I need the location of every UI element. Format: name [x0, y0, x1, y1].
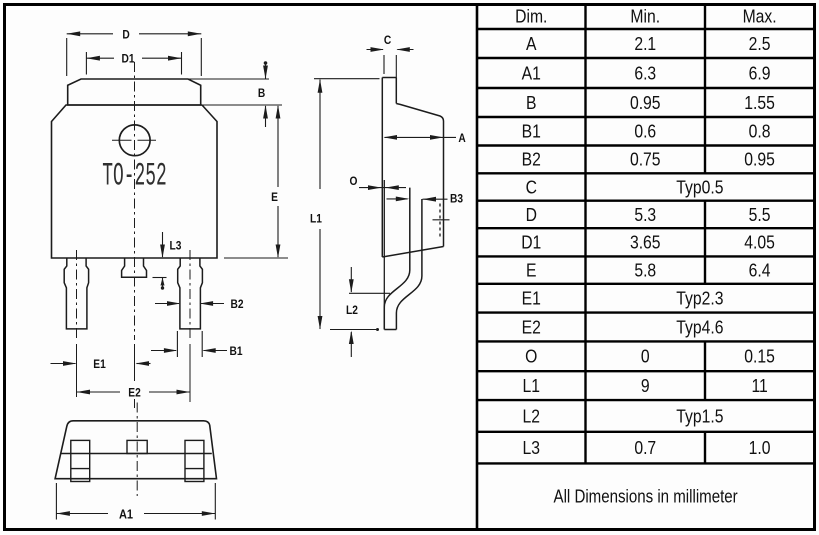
svg-text:Typ0.5: Typ0.5	[676, 176, 723, 198]
svg-text:Typ2.3: Typ2.3	[676, 287, 723, 309]
extension line: stub bottom	[153, 277, 167, 279]
dimension L3 lower arrow	[162, 278, 164, 287]
svg-text:O: O	[525, 345, 537, 367]
svg-text:5.5: 5.5	[749, 204, 771, 226]
svg-text:L3: L3	[523, 437, 540, 459]
bottom view: right pad	[185, 440, 204, 481]
side view: lead back line	[396, 199, 422, 330]
svg-text:2.1: 2.1	[634, 33, 656, 55]
svg-text:0: 0	[641, 345, 650, 367]
table: row dividers	[477, 28, 814, 30]
dimension D1 arrows	[86, 56, 100, 61]
svg-text:E2: E2	[522, 316, 541, 338]
svg-text:1.55: 1.55	[744, 92, 775, 114]
svg-text:B2: B2	[230, 298, 243, 311]
dimension B1 extension lines	[176, 331, 178, 357]
svg-text:Dim.: Dim.	[515, 5, 547, 27]
dimension O arrows	[368, 185, 382, 190]
dimension L1 top extension	[314, 78, 380, 80]
svg-text:A1: A1	[522, 62, 541, 84]
svg-text:All Dimensions in millimeter: All Dimensions in millimeter	[554, 486, 738, 507]
svg-text:0.75: 0.75	[630, 148, 661, 170]
side view: body right side	[443, 121, 445, 247]
svg-text:O: O	[350, 175, 358, 188]
dimension D extension lines	[66, 38, 68, 76]
svg-text:A: A	[458, 132, 465, 145]
side view: lead foot bottom	[384, 329, 396, 331]
svg-text:L1: L1	[523, 375, 540, 397]
svg-text:L3: L3	[170, 240, 182, 253]
svg-text:6.4: 6.4	[749, 259, 771, 281]
svg-text:B: B	[526, 92, 536, 114]
svg-text:A1: A1	[119, 507, 133, 522]
dimension L1 bottom extension	[330, 329, 376, 331]
dimension L3 upper arrow	[162, 232, 164, 257]
svg-text:B3: B3	[450, 193, 463, 206]
svg-text:E1: E1	[522, 287, 541, 309]
svg-text:Typ4.6: Typ4.6	[676, 316, 723, 338]
side view: seating plane line	[383, 180, 385, 330]
side view: tab back line	[381, 78, 383, 258]
side view: body top slant	[396, 104, 443, 122]
svg-text:L2: L2	[523, 405, 540, 427]
bottom view: body outline	[55, 421, 216, 479]
svg-text:3.65: 3.65	[630, 231, 661, 253]
svg-text:9: 9	[641, 375, 650, 397]
svg-text:0.6: 0.6	[634, 120, 656, 142]
dimension B3 hidden edge dashed	[439, 204, 441, 238]
svg-text:Min.: Min.	[630, 5, 660, 27]
svg-text:0.15: 0.15	[744, 345, 775, 367]
dimension B1 right arrow	[204, 350, 228, 352]
dimension A1 arrows	[56, 511, 70, 516]
front view: center pin stub outline	[122, 258, 147, 278]
dimension E2 arrows	[77, 390, 91, 395]
dimension D1 line	[86, 57, 114, 59]
side view: lead front line	[384, 188, 410, 330]
svg-text:1.0: 1.0	[749, 437, 771, 459]
svg-text:B: B	[258, 87, 265, 100]
table: col divider 2	[704, 3, 706, 173]
svg-text:E: E	[271, 191, 278, 204]
svg-text:6.9: 6.9	[749, 62, 771, 84]
svg-text:C: C	[384, 34, 391, 47]
dimension D arrows	[67, 31, 81, 36]
dimension A arrows	[384, 135, 398, 140]
front view: hole horizontal centerline	[112, 139, 132, 141]
dimension B3 right line	[423, 198, 448, 200]
dimension E line	[277, 106, 279, 187]
front view: mounting hole circle	[119, 125, 150, 156]
svg-text:E2: E2	[128, 387, 140, 400]
dimension E arrows	[276, 105, 281, 119]
dimension A line	[385, 136, 457, 138]
table: left border	[476, 3, 479, 530]
dimension C left arrow	[367, 49, 384, 51]
dimension L2 upper arrow	[350, 267, 352, 292]
front view: left pin outline	[64, 258, 88, 329]
front view: right pin centerline	[189, 250, 191, 340]
table: col divider 1	[584, 3, 586, 463]
dimension B lower arrow	[265, 106, 267, 127]
dimension B1 left arrow	[151, 350, 176, 352]
svg-text:B1: B1	[229, 345, 242, 358]
svg-text:L1: L1	[310, 213, 322, 226]
svg-text:D: D	[122, 29, 129, 42]
svg-text:0.8: 0.8	[749, 120, 771, 142]
front view: left pin centerline	[76, 250, 78, 340]
dimension C right arrow	[397, 49, 413, 51]
dimension L1 line	[319, 80, 321, 190]
dimension B2 left arrow	[155, 303, 179, 305]
svg-text:0.7: 0.7	[634, 437, 656, 459]
svg-text:5.3: 5.3	[634, 204, 656, 226]
svg-text:L2: L2	[346, 304, 358, 317]
dimension E1 left arrow	[51, 363, 76, 365]
svg-text:D: D	[526, 204, 537, 226]
svg-text:TO-252: TO-252	[102, 157, 166, 194]
dimension A1 extension lines	[55, 483, 57, 520]
svg-text:Max.: Max.	[743, 5, 777, 27]
svg-text:Typ1.5: Typ1.5	[676, 405, 723, 427]
front view: package tab outline	[68, 79, 201, 105]
dimension E2 line	[77, 391, 121, 393]
svg-text:B2: B2	[522, 148, 541, 170]
dimension B2 right arrow	[201, 303, 224, 305]
front view: right pin outline	[178, 258, 203, 329]
svg-text:D1: D1	[521, 231, 541, 253]
svg-text:A: A	[526, 33, 537, 55]
dimension L2 top extension	[349, 292, 390, 294]
svg-text:5.8: 5.8	[634, 259, 656, 281]
svg-text:D1: D1	[121, 53, 134, 66]
extension line: tab top to right	[189, 78, 270, 80]
dimension L2 lower arrow	[350, 332, 352, 357]
svg-text:6.3: 6.3	[634, 62, 656, 84]
front view: vertical centerline	[134, 62, 136, 340]
extension line: body top to right	[203, 104, 282, 106]
dimension E1 right arrow	[137, 363, 151, 365]
dimension D1 extension lines	[85, 52, 87, 75]
dimension B3 left line	[387, 198, 408, 200]
svg-text:E1: E1	[93, 358, 105, 371]
dimension A1 line	[56, 513, 108, 515]
svg-text:4.05: 4.05	[744, 231, 775, 253]
side view: body bottom edge	[382, 247, 443, 258]
dimension O line	[359, 187, 406, 189]
front view: package body outline	[52, 105, 218, 258]
svg-text:2.5: 2.5	[749, 33, 771, 55]
dimension B3 tick	[433, 219, 450, 221]
bottom view: mid line	[61, 453, 212, 455]
svg-text:B1: B1	[522, 120, 541, 142]
bottom view: center pad	[127, 440, 147, 453]
svg-text:0.95: 0.95	[630, 92, 661, 114]
svg-text:0.95: 0.95	[744, 148, 775, 170]
svg-text:C: C	[526, 176, 537, 198]
side view: tab right side	[395, 78, 397, 104]
side view: tab top edge	[382, 77, 396, 79]
dimension C extension lines	[383, 55, 385, 74]
dimension L1 arrows	[318, 79, 323, 93]
bottom view: left pad	[71, 440, 90, 481]
svg-text:11: 11	[751, 375, 767, 397]
dimension D line	[67, 33, 113, 35]
dimension B upper arrow	[265, 64, 267, 79]
svg-text:E: E	[526, 259, 536, 281]
extension line: body bottom to right	[224, 257, 288, 259]
bottom view: vertical centerline	[136, 403, 138, 497]
